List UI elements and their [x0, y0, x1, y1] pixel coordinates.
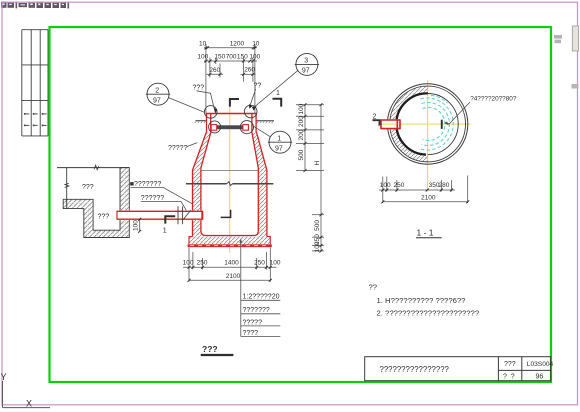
plan pipe gap (white under pipe) — [380, 119, 401, 129]
svg-text:100: 100 — [133, 220, 140, 231]
svg-text:? ?: ? ? — [503, 374, 515, 381]
svg-text:200: 200 — [298, 116, 305, 127]
svg-text:500: 500 — [298, 149, 305, 160]
svg-text:1: 1 — [277, 136, 281, 143]
pipe invert dim 100 — [139, 219, 141, 231]
dim row3 lines — [207, 73, 224, 75]
detail circle c3 — [209, 121, 221, 133]
step iron L mark — [221, 210, 231, 218]
svg-text:250: 250 — [394, 182, 405, 189]
material layer callout stack — [240, 240, 242, 337]
leader for ■??????? — [131, 188, 193, 204]
floor inner line (red) — [201, 231, 258, 236]
svg-text:100: 100 — [298, 103, 305, 114]
BOTTOM DIMENSIONS — [183, 248, 277, 282]
leader for ????? — [187, 143, 198, 147]
svg-text:150: 150 — [214, 54, 225, 61]
dim row1 line — [204, 47, 257, 49]
plan thick arc (left) — [396, 93, 428, 154]
cone+wall hatch left — [193, 132, 211, 210]
svg-text:2100: 2100 — [421, 195, 436, 202]
ground hatch ticks left — [195, 121, 206, 123]
pipe end cap in chamber — [201, 211, 203, 220]
chamber ceiling line — [201, 170, 258, 172]
bubble 1/97 — [268, 131, 292, 153]
leader ?? — [250, 89, 256, 105]
floor slab hatch — [189, 237, 270, 245]
section title underline — [416, 237, 442, 239]
svg-text:???: ??? — [202, 344, 218, 354]
section 2 direction arrow — [379, 122, 383, 126]
cover frame right channel — [251, 114, 253, 133]
dim row2 line — [204, 60, 257, 62]
centerline (yellow) elevation — [229, 106, 231, 253]
svg-text:97: 97 — [275, 146, 283, 153]
svg-text:100: 100 — [249, 54, 260, 61]
leader 2/97 — [168, 98, 204, 113]
faint gray text near frame corner — [554, 35, 562, 43]
svg-text:??????: ?????? — [141, 195, 164, 202]
svg-text:1:2?????20: 1:2?????20 — [243, 294, 280, 301]
detail circle c4 — [240, 121, 253, 134]
pipe joint (flange) — [177, 206, 179, 224]
leader for rung label — [446, 102, 471, 124]
svg-text:2: 2 — [373, 113, 377, 120]
svg-text:97: 97 — [302, 68, 310, 75]
svg-text:260: 260 — [209, 67, 220, 74]
PLAN DIMENSIONS — [379, 176, 468, 204]
bubble 2/97 — [146, 83, 170, 105]
dim chain line — [183, 266, 277, 268]
svg-text:1: 1 — [163, 228, 167, 235]
svg-text:10: 10 — [199, 40, 207, 47]
cone outline left (red) — [193, 132, 207, 236]
dim line B — [320, 105, 322, 251]
svg-text:97: 97 — [153, 98, 161, 105]
UCS icon — [3, 381, 51, 408]
cover slab (dark bar) — [216, 125, 243, 129]
witness horizontals — [296, 104, 324, 106]
cover seat block left — [211, 125, 217, 131]
svg-text:■???????: ■??????? — [130, 181, 162, 188]
witness lines top dims — [205, 44, 207, 113]
break mark on left line — [65, 183, 69, 187]
plan dim 2100 line — [383, 201, 468, 203]
svg-text:100: 100 — [183, 260, 194, 267]
svg-text:100: 100 — [270, 260, 281, 267]
svg-text:???: ??? — [98, 214, 110, 221]
svg-text:H: H — [314, 161, 321, 166]
rung leader arrow — [445, 122, 450, 126]
ticks right dims — [304, 103, 323, 252]
trench ground line — [57, 167, 129, 169]
plan second circle — [390, 86, 466, 162]
leader for ?????? — [141, 202, 187, 211]
detail circle c1 — [204, 106, 217, 119]
svg-text:260: 260 — [244, 67, 255, 74]
svg-text:???????: ??????? — [243, 307, 270, 314]
leader 1/97 — [253, 126, 271, 137]
scrollbar thumb (top right) — [572, 26, 578, 51]
svg-text:Y: Y — [1, 372, 7, 382]
section bracket 1 top-right — [273, 99, 282, 107]
section bracket 1 (bottom, at pipe) — [165, 216, 175, 223]
table arrow marks — [24, 113, 47, 127]
svg-text:?????: ????? — [243, 319, 263, 326]
inlet pipe (red) — [117, 210, 203, 212]
svg-text:L03S004: L03S004 — [527, 361, 554, 368]
ground hatch ticks right — [257, 121, 274, 123]
svg-text:2: 2 — [155, 88, 159, 95]
floor slab red band — [188, 244, 272, 247]
wall pipe gap (chamber left wall) — [192, 210, 203, 220]
svg-text:150: 150 — [237, 54, 248, 61]
TITLE BLOCK — [365, 357, 551, 381]
left revision table — [22, 30, 48, 136]
plan inner thin circle (right half) — [428, 94, 459, 155]
cover top rail (red) — [206, 113, 257, 115]
plan centerline vertical (yellow) — [427, 80, 429, 192]
floor slab outline (red) — [189, 237, 270, 245]
ladder rung (plan) — [441, 120, 443, 129]
dim line A — [304, 105, 306, 171]
dim 2100 line — [189, 279, 270, 281]
cover seat block right — [243, 125, 249, 131]
window title text (tiny glyph blobs top-left) — [1, 2, 69, 9]
svg-text:????: ???? — [243, 330, 259, 337]
svg-text:?4????20??80?: ?4????20??80? — [470, 96, 517, 103]
plan outer circle — [387, 84, 467, 164]
svg-text:???: ??? — [504, 361, 516, 368]
svg-text:1: 1 — [276, 90, 280, 97]
ground line left — [196, 120, 207, 122]
plan inlet pipe (red) — [381, 119, 400, 129]
svg-text:1200: 1200 — [230, 40, 245, 47]
cover frame left channel — [206, 114, 208, 133]
RIGHT VERTICAL DIMS — [296, 105, 324, 251]
groundwater line with break — [186, 183, 227, 185]
svg-text:200: 200 — [298, 129, 305, 140]
ground line right — [257, 120, 275, 122]
scrollbar tick — [572, 84, 579, 89]
svg-text:700: 700 — [226, 54, 237, 61]
svg-text:2100: 2100 — [226, 273, 241, 280]
svg-text:?????: ????? — [168, 145, 188, 152]
trench left break line — [66, 168, 68, 209]
centerline through pipe — [382, 123, 396, 125]
svg-text:??: ?? — [369, 283, 378, 292]
svg-text:1400: 1400 — [224, 260, 239, 267]
cone outline right (red) — [257, 132, 267, 236]
svg-text:280: 280 — [439, 182, 450, 189]
section bracket 2 — [373, 120, 380, 124]
TOP DIMENSIONS — [204, 44, 257, 113]
svg-text:250: 250 — [197, 260, 208, 267]
plan centerline horizontal (yellow) — [384, 123, 471, 125]
svg-text:1 - 1: 1 - 1 — [417, 228, 434, 238]
svg-text:96: 96 — [536, 374, 544, 381]
plan wall hatch ring (left) — [390, 86, 428, 162]
leader 3/97 — [253, 71, 298, 109]
svg-text:100: 100 — [197, 54, 208, 61]
svg-text:10: 10 — [252, 40, 260, 47]
leader ??? — [197, 91, 215, 109]
section bracket 1 top-left — [230, 99, 239, 107]
svg-text:3: 3 — [304, 58, 308, 65]
break mark on ground line — [94, 165, 99, 170]
svg-text:100: 100 — [380, 182, 391, 189]
bubble 3/97 — [295, 53, 319, 75]
svg-text:2. ??????????????????????: 2. ?????????????????????? — [377, 309, 480, 318]
cyan dashed arcs — [421, 95, 454, 150]
plan dim chain line — [379, 189, 455, 191]
svg-text:X: X — [26, 398, 32, 408]
drawing frame (green) — [50, 27, 552, 382]
view title underline — [201, 354, 234, 356]
ticks top dims — [204, 46, 256, 76]
pipe gap through trench wall — [119, 210, 130, 220]
svg-text:100: 100 — [314, 241, 321, 252]
svg-text:???: ??? — [82, 184, 94, 191]
svg-text:500: 500 — [314, 220, 321, 231]
svg-text:???: ??? — [193, 85, 205, 92]
cone+wall hatch right — [252, 132, 267, 236]
svg-text:1. H?????????? ????6??: 1. H?????????? ????6?? — [377, 296, 466, 305]
svg-text:250: 250 — [254, 260, 265, 267]
trench hatch body — [63, 168, 129, 238]
detail circle c2 — [244, 105, 257, 118]
svg-text:????????????????: ???????????????? — [380, 365, 450, 374]
